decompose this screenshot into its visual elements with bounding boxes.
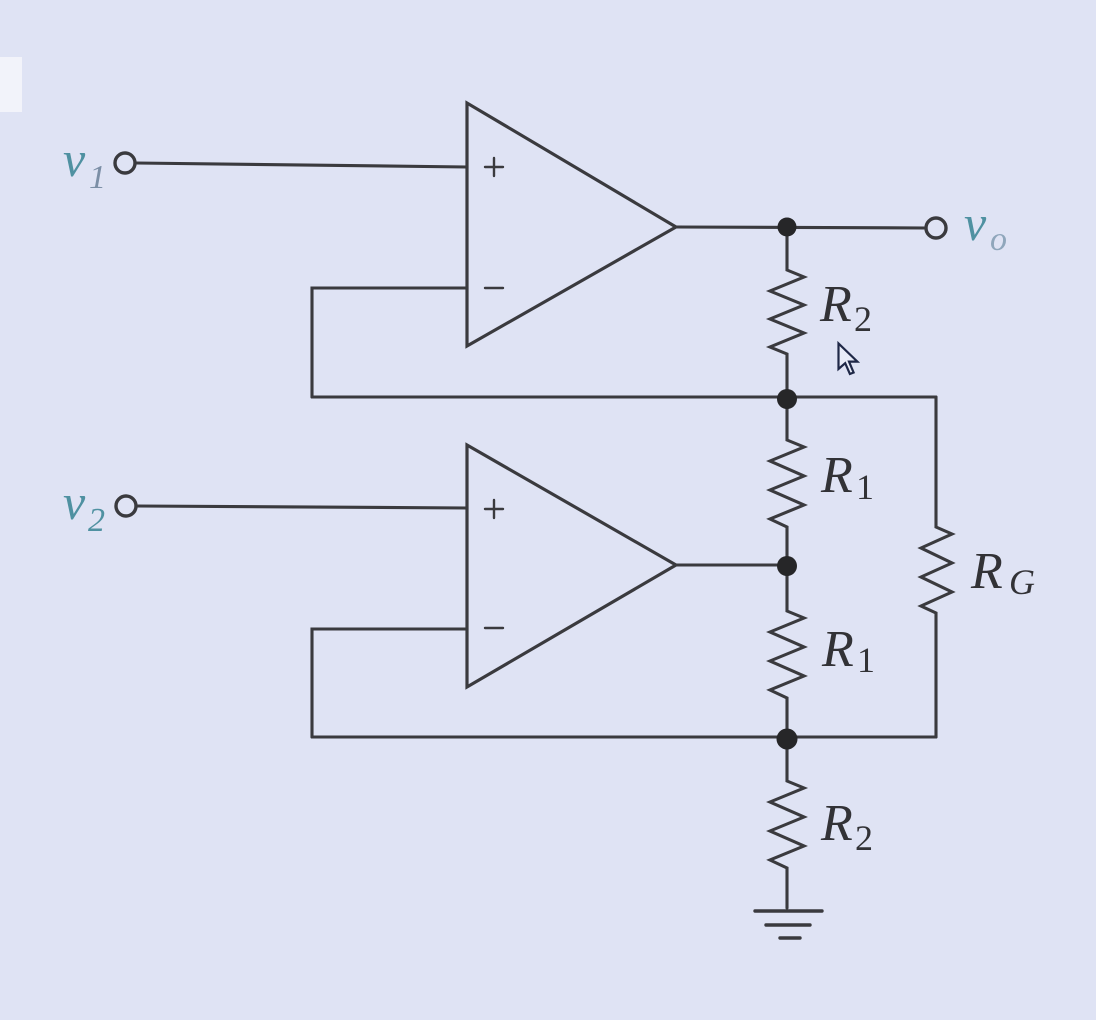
op-amp U2 plus pin label [485, 500, 503, 518]
label R1 bottom [821, 621, 875, 680]
label R2 top [819, 276, 872, 339]
wire U2 inverting feedback [312, 629, 467, 737]
label vo [964, 195, 1007, 258]
op-amp U2 [467, 445, 676, 687]
svg-text:2: 2 [855, 818, 873, 858]
resistor RG [921, 397, 952, 737]
node v1 input terminal [115, 153, 135, 173]
resistor R2 bottom [770, 737, 804, 908]
op-amp U2 minus pin label [485, 627, 503, 629]
label R1 top [820, 447, 874, 507]
label R2 bottom [820, 795, 873, 858]
junction node c dot [777, 729, 798, 750]
op-amp U1 plus pin label [485, 158, 503, 176]
svg-text:G: G [1009, 562, 1035, 602]
ground [755, 911, 822, 938]
label v1 [63, 131, 106, 196]
resistor R2 top [770, 227, 804, 397]
svg-text:R: R [820, 447, 853, 504]
junction node a dot [777, 389, 797, 409]
mouse cursor [839, 344, 858, 375]
junction node b dot [777, 556, 797, 576]
junction dot at U1 output [778, 218, 797, 237]
svg-text:v: v [63, 474, 86, 530]
label RG [970, 543, 1035, 602]
wire middle horizontal node a [312, 395, 936, 398]
wire U2 output to node b [676, 563, 787, 566]
svg-text:o: o [990, 221, 1007, 258]
svg-text:v: v [63, 131, 86, 187]
wire v2 to op-amp U2 noninverting input [137, 506, 467, 508]
svg-text:2: 2 [854, 299, 872, 339]
wire bottom horizontal node c [312, 735, 936, 738]
svg-text:v: v [964, 195, 987, 251]
svg-text:1: 1 [89, 159, 106, 196]
resistor R1 top [770, 397, 804, 565]
svg-text:2: 2 [88, 502, 105, 539]
svg-text:R: R [820, 795, 853, 852]
node vo output terminal [926, 218, 946, 238]
op-amp U1 minus pin label [485, 287, 503, 289]
svg-text:1: 1 [857, 640, 875, 680]
wire U1 output to node vo [676, 227, 926, 228]
op-amp U1 [467, 103, 676, 346]
svg-text:R: R [821, 621, 854, 678]
svg-text:1: 1 [856, 467, 874, 507]
svg-text:R: R [970, 543, 1003, 600]
scan artifact light patch top-left [0, 57, 22, 112]
wire v1 to op-amp U1 noninverting input [136, 163, 467, 167]
node v2 input terminal [116, 496, 136, 516]
wire U1 inverting feedback [312, 288, 467, 397]
label v2 [63, 474, 105, 539]
svg-text:R: R [819, 276, 852, 333]
resistor R1 bottom [770, 565, 804, 737]
